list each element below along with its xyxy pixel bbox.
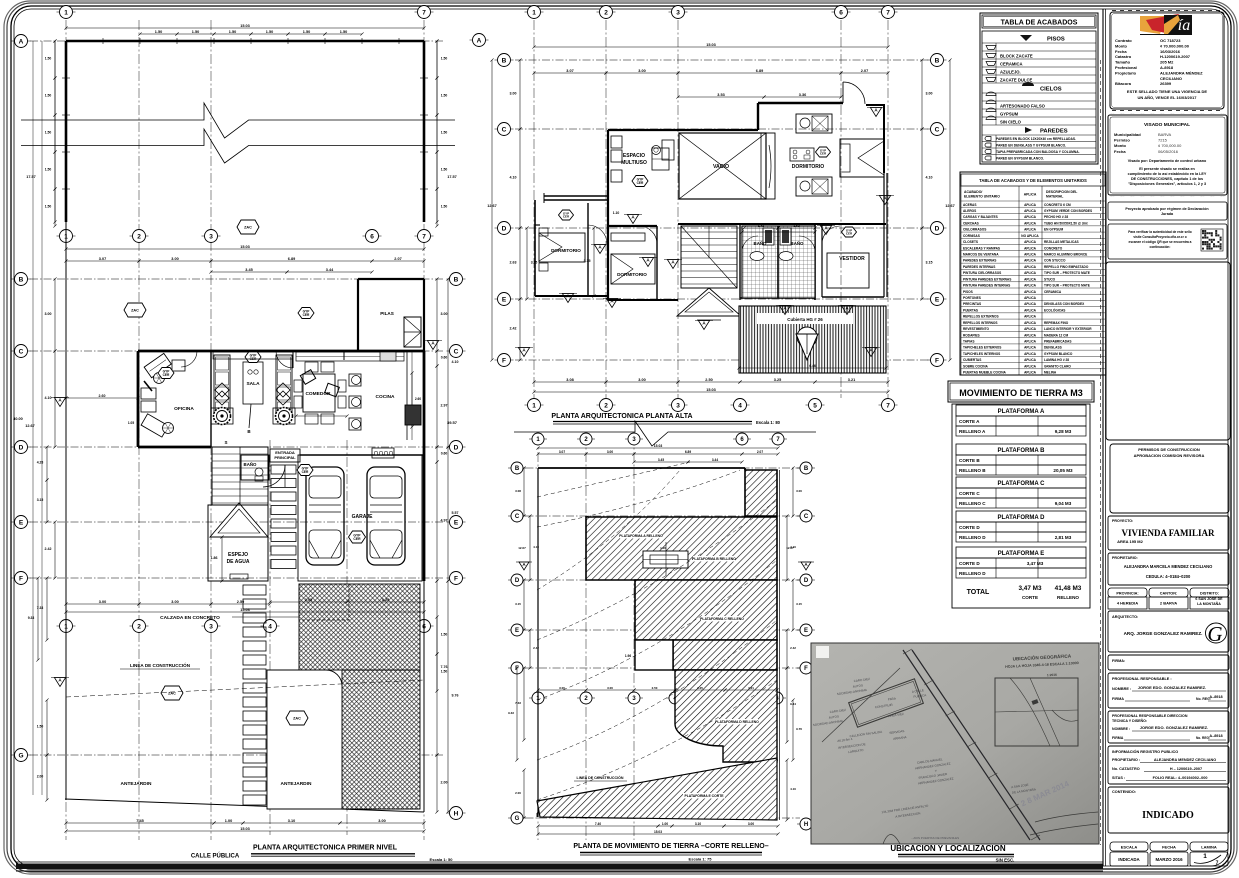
svg-text:DISTRITO:: DISTRITO: xyxy=(1200,591,1219,595)
svg-text:PERMISOS DE CONSTRUCCION: PERMISOS DE CONSTRUCCION xyxy=(1138,447,1200,452)
mt grid line xyxy=(512,515,800,517)
property boundary right lower xyxy=(423,581,425,812)
comedor table xyxy=(303,374,335,412)
svg-text:VACIO: VACIO xyxy=(713,164,729,170)
grid line A xyxy=(30,40,445,42)
pa dorm2 left wall xyxy=(607,203,609,300)
car xyxy=(306,467,344,565)
svg-text:DE AGUA: DE AGUA xyxy=(227,559,250,565)
svg-text:PECHO HG # 28: PECHO HG # 28 xyxy=(1044,215,1068,219)
lamina number xyxy=(1194,855,1221,863)
svg-text:PISOS: PISOS xyxy=(963,290,973,294)
svg-text:D: D xyxy=(502,225,507,232)
mt vertical grid xyxy=(633,435,635,840)
svg-text:STUCO: STUCO xyxy=(1044,277,1056,281)
pa left dormitorio walls xyxy=(535,224,540,226)
svg-text:PINTURA PAREDES EXTERNAS: PINTURA PAREDES EXTERNAS xyxy=(963,277,1011,281)
svg-text:Escala 1: 75: Escala 1: 75 xyxy=(689,857,713,862)
svg-text:1.00: 1.00 xyxy=(662,822,668,826)
svg-text:"Disposiciones Generales", art: "Disposiciones Generales", artículos 1, … xyxy=(1128,182,1206,186)
svg-text:SIN CIELO: SIN CIELO xyxy=(1000,119,1022,124)
svg-text:GYPSUM: GYPSUM xyxy=(1000,111,1019,116)
mt bubble 4 mid xyxy=(666,697,684,699)
svg-text:3.36: 3.36 xyxy=(799,93,806,97)
svg-text:PLANTA ARQUITECTONICA PRIMER: PLANTA ARQUITECTONICA PRIMER NIVEL xyxy=(253,845,398,852)
svg-text:APLICA: APLICA xyxy=(1024,302,1037,306)
svg-text:¢ 70.000.000.00: ¢ 70.000.000.00 xyxy=(1160,43,1190,48)
svg-text:3.15: 3.15 xyxy=(37,498,44,502)
svg-text:41,48 M3: 41,48 M3 xyxy=(1055,585,1082,592)
svg-text:H-1200619-2007: H-1200619-2007 xyxy=(1160,54,1191,59)
svg-text:PLATAFORMA E: PLATAFORMA E xyxy=(998,551,1045,557)
pa bubble 5 bottom xyxy=(806,404,825,406)
svg-text:E: E xyxy=(454,519,459,526)
svg-text:TABLA DE ACABADOS: TABLA DE ACABADOS xyxy=(1001,20,1078,27)
svg-text:SIN ESC.: SIN ESC. xyxy=(996,858,1015,863)
grid line E xyxy=(30,521,445,523)
svg-text:1.10: 1.10 xyxy=(613,211,620,215)
escala fecha lamina xyxy=(1110,842,1148,851)
pa top dims xyxy=(534,46,888,48)
svg-text:1.50: 1.50 xyxy=(155,30,162,34)
svg-text:1.50: 1.50 xyxy=(340,30,347,34)
mt grid line xyxy=(512,817,800,819)
svg-text:PROFESIONAL RESPONSABLE DIRE: PROFESIONAL RESPONSABLE DIRECCION xyxy=(1112,714,1188,718)
svg-text:PARED EN GYPSUM BLANCO.: PARED EN GYPSUM BLANCO. xyxy=(996,157,1044,161)
svg-text:E: E xyxy=(515,628,519,634)
svg-text:PUERTAS MUEBLE COCINA: PUERTAS MUEBLE COCINA xyxy=(963,371,1006,375)
grid bubble 2 mid row xyxy=(130,235,149,237)
svg-text:PROYECTO:: PROYECTO: xyxy=(1112,519,1133,523)
lawn rounded corner xyxy=(267,670,342,809)
svg-text:CORTE A: CORTE A xyxy=(959,419,980,424)
svg-text:CER: CER xyxy=(846,232,853,236)
svg-text:Monto: Monto xyxy=(1115,43,1128,48)
wall tick top xyxy=(324,38,326,44)
svg-text:2.07: 2.07 xyxy=(394,257,401,261)
pa espacio multiuso walls xyxy=(608,129,758,131)
baño xyxy=(241,455,269,480)
svg-text:APLICA: APLICA xyxy=(1024,271,1037,275)
oficina door arc xyxy=(181,351,197,367)
pa shelf band right of vacio xyxy=(766,133,775,199)
svg-text:1.05: 1.05 xyxy=(128,421,134,425)
svg-text:SITAS :: SITAS : xyxy=(1112,776,1125,780)
mt bottom dims xyxy=(538,825,658,827)
mt bubble 5 mid xyxy=(716,697,734,699)
cocina divider xyxy=(343,351,345,360)
vertical grid line xyxy=(887,20,889,398)
svg-text:MATERIAL: MATERIAL xyxy=(1046,195,1063,199)
svg-text:4.10: 4.10 xyxy=(926,176,933,180)
svg-text:1.50: 1.50 xyxy=(441,57,448,61)
svg-text:CONTENIDO:: CONTENIDO: xyxy=(1112,790,1136,794)
svg-text:Escala 1: 50: Escala 1: 50 xyxy=(430,857,454,862)
svg-text:3.25: 3.25 xyxy=(774,378,781,382)
svg-text:GYPSUM BLANCO: GYPSUM BLANCO xyxy=(1044,352,1073,356)
svg-text:PLATAFORMA B RELLENO: PLATAFORMA B RELLENO xyxy=(692,557,736,561)
vertical grid line short xyxy=(269,440,271,835)
svg-text:3.08: 3.08 xyxy=(566,378,573,382)
svg-text:······: ······ xyxy=(1130,197,1135,199)
svg-text:12.67: 12.67 xyxy=(945,204,955,208)
svg-text:BAÑO: BAÑO xyxy=(244,462,258,467)
svg-text:3.21: 3.21 xyxy=(748,686,754,690)
svg-text:PAREDES: PAREDES xyxy=(1040,129,1068,135)
svg-text:3.00: 3.00 xyxy=(638,378,645,382)
svg-text:F: F xyxy=(19,575,23,582)
section line with break xyxy=(21,103,455,138)
svg-text:E: E xyxy=(502,296,507,303)
svg-text:CER: CER xyxy=(302,470,309,474)
svg-text:DESCRIPCION DEL: DESCRIPCION DEL xyxy=(1046,190,1077,194)
arquitecto box xyxy=(1108,611,1229,652)
svg-text:1: 1 xyxy=(64,9,68,16)
svg-text:CORTE D: CORTE D xyxy=(959,561,980,566)
pa bubble E left xyxy=(495,298,514,300)
right dim chain patio xyxy=(436,41,438,222)
mt bubble B right xyxy=(797,467,815,469)
svg-text:7.33: 7.33 xyxy=(515,701,521,705)
svg-text:······: ······ xyxy=(1180,114,1185,116)
vertical grid line short xyxy=(346,440,348,835)
svg-text:······: ······ xyxy=(1200,114,1205,116)
svg-text:1: 1 xyxy=(532,402,536,409)
bottom thick border bar xyxy=(16,861,1103,863)
mt grid line xyxy=(512,629,800,631)
grid bubble 7 top xyxy=(415,11,434,13)
pa vestidor walls xyxy=(821,224,823,297)
svg-text:PLANTA ARQUITECTONICA PLANTA: PLANTA ARQUITECTONICA PLANTA ALTA xyxy=(551,413,692,420)
svg-text:TAPICHELES INTERNOS: TAPICHELES INTERNOS xyxy=(963,352,1000,356)
qr box xyxy=(1108,224,1227,259)
svg-text:2.63: 2.63 xyxy=(510,261,517,265)
svg-text:3.25: 3.25 xyxy=(382,598,389,602)
pa D wall xyxy=(608,225,657,227)
svg-text:1.86: 1.86 xyxy=(211,556,218,560)
svg-text:APLICA: APLICA xyxy=(1024,296,1037,300)
svg-text:1.50: 1.50 xyxy=(45,131,52,135)
svg-text:PROFESIONAL RESPONSABLE :: PROFESIONAL RESPONSABLE : xyxy=(1112,677,1172,681)
wall tick top xyxy=(176,38,178,44)
grid bubble C right xyxy=(447,350,466,352)
pa left outer wall xyxy=(534,200,536,296)
svg-text:6: 6 xyxy=(370,233,374,240)
wall tick right xyxy=(420,114,428,116)
svg-text:2.60: 2.60 xyxy=(99,394,106,398)
svg-text:No. CATASTRO: No. CATASTRO xyxy=(1112,767,1140,771)
svg-text:CER: CER xyxy=(303,313,310,317)
mt bubble E left xyxy=(508,629,526,631)
svg-text:ESCALA: ESCALA xyxy=(1121,844,1138,849)
mt bubble 3 mid xyxy=(625,697,643,699)
grid line G xyxy=(30,754,445,756)
svg-text:7: 7 xyxy=(422,9,426,16)
dims row above lower bubbles xyxy=(66,603,139,605)
svg-text:AZULEJO.: AZULEJO. xyxy=(1000,69,1021,74)
house left wall xyxy=(137,351,140,447)
svg-text:PINTURA PAREDES INTERNAS: PINTURA PAREDES INTERNAS xyxy=(963,284,1010,288)
pisos header xyxy=(1020,35,1032,41)
svg-text:F: F xyxy=(502,357,506,364)
pa bubble 1 bottom xyxy=(525,404,544,406)
vertical grid line xyxy=(210,20,212,840)
svg-text:Proyecto aprobado por régimen: Proyecto aprobado por régimen de Declara… xyxy=(1125,207,1209,211)
grid bubble 2 lower row xyxy=(130,625,149,627)
svg-text:7: 7 xyxy=(886,9,890,16)
svg-text:12.67: 12.67 xyxy=(518,546,526,550)
svg-text:ECOLÓGICAS: ECOLÓGICAS xyxy=(1044,307,1065,312)
svg-text:3.10: 3.10 xyxy=(288,819,295,823)
mt bubble G left xyxy=(508,817,526,819)
mt bubble H right xyxy=(797,823,815,825)
grid bubble B left xyxy=(12,278,31,280)
svg-text:CERCHAS: CERCHAS xyxy=(963,221,979,225)
cfia stamp box xyxy=(1110,12,1224,109)
svg-text:PUERTAS: PUERTAS xyxy=(963,308,978,312)
svg-text:15.03: 15.03 xyxy=(240,827,250,831)
svg-text:TAPIAS: TAPIAS xyxy=(963,340,974,344)
svg-text:C: C xyxy=(935,126,940,133)
grid bubble 3 mid row xyxy=(202,235,221,237)
propietario box xyxy=(1108,553,1229,585)
svg-text:2.07: 2.07 xyxy=(757,450,763,454)
svg-text:1.50: 1.50 xyxy=(45,168,52,172)
svg-text:BARVA: BARVA xyxy=(1158,132,1172,137)
sofa diamonds xyxy=(215,383,229,397)
svg-text:3.15: 3.15 xyxy=(531,261,538,265)
svg-text:EN GYPSUM: EN GYPSUM xyxy=(1044,228,1063,232)
master bed xyxy=(840,139,884,177)
svg-text:3: 3 xyxy=(676,402,680,409)
entrada principal xyxy=(270,449,300,462)
right side dims xyxy=(436,279,438,351)
svg-text:G: G xyxy=(515,816,520,822)
pa bubble 4 bottom xyxy=(731,404,750,406)
svg-text:C: C xyxy=(515,514,520,520)
svg-text:No. REG:: No. REG: xyxy=(1196,736,1210,740)
mt bubble C left xyxy=(508,515,526,517)
svg-text:1.00: 1.00 xyxy=(225,819,232,823)
svg-text:CER: CER xyxy=(637,181,644,185)
svg-text:APLICA: APLICA xyxy=(1024,333,1037,337)
svg-text:AREA 195 M2: AREA 195 M2 xyxy=(1117,539,1143,544)
svg-text:3.00: 3.00 xyxy=(441,312,448,316)
grid bubble D right xyxy=(447,446,466,448)
oficina/sala divider xyxy=(210,351,212,447)
svg-text:INDICADO: INDICADO xyxy=(1142,810,1194,821)
pa bubble F right xyxy=(928,359,947,361)
svg-text:GARAJE: GARAJE xyxy=(352,514,374,520)
cielos rows xyxy=(982,92,1096,94)
grid line xyxy=(515,128,928,130)
mt top dims xyxy=(538,447,778,449)
svg-text:······: ······ xyxy=(1190,197,1195,199)
cocina counter xyxy=(406,351,408,440)
svg-text:APLICA: APLICA xyxy=(1024,340,1037,344)
PLATAFORMA D sub-table xyxy=(956,511,1086,522)
level triangles pa xyxy=(518,348,529,357)
proyecto aprobado box xyxy=(1108,202,1227,220)
svg-text:2.00: 2.00 xyxy=(515,791,521,795)
svg-text:LINEA DE CONSTRUCCIÓN: LINEA DE CONSTRUCCIÓN xyxy=(577,775,624,780)
white court square xyxy=(635,640,673,670)
svg-text:FIRMA: FIRMA xyxy=(1112,736,1124,740)
grid line xyxy=(515,59,928,61)
mt vertical grid xyxy=(585,435,587,840)
dashed patch border xyxy=(299,584,349,620)
pa bubble 2 bottom xyxy=(597,404,616,406)
svg-text:APLICA: APLICA xyxy=(1024,259,1037,263)
svg-text:Visado por: Departamento de co: Visado por: Departamento de control urba… xyxy=(1128,159,1207,163)
wall tick left xyxy=(62,188,70,190)
entry door arc xyxy=(263,465,285,487)
property boundary bottom (slanted) xyxy=(65,799,424,812)
svg-text:4.10: 4.10 xyxy=(510,176,517,180)
svg-text:PLATAFORMA A: PLATAFORMA A xyxy=(998,409,1045,415)
grid bubble F left xyxy=(12,577,31,579)
svg-text:REPELLOS EXTERNOS: REPELLOS EXTERNOS xyxy=(963,315,999,319)
svg-text:D: D xyxy=(804,578,809,584)
svg-text:1.50: 1.50 xyxy=(45,57,52,61)
svg-text:TABLA DE ACABADOS Y DE ELEMENT: TABLA DE ACABADOS Y DE ELEMENTOS UNITARI… xyxy=(979,178,1087,183)
svg-text:APLICA: APLICA xyxy=(1024,290,1037,294)
mt bubble F left xyxy=(508,667,526,669)
svg-text:UBICACION Y LOCALIZACION: UBICACION Y LOCALIZACION xyxy=(890,844,1005,853)
svg-text:2.42: 2.42 xyxy=(510,327,517,331)
svg-text:Para verificar la autenticidad: Para verificar la autenticidad de este s… xyxy=(1128,230,1191,234)
svg-text:LAMINA: LAMINA xyxy=(1201,844,1217,849)
photo bottom blob xyxy=(883,835,900,845)
svg-text:APLICA: APLICA xyxy=(1024,352,1037,356)
PLATAFORMA C sub-table xyxy=(956,477,1086,488)
svg-text:FIRMA: FIRMA xyxy=(1112,697,1124,701)
driveway herringbone corner xyxy=(342,670,420,809)
svg-text:5.57: 5.57 xyxy=(452,511,459,515)
wall D oficina bottom xyxy=(138,446,211,449)
svg-text:3.08: 3.08 xyxy=(515,489,521,493)
svg-text:12.67: 12.67 xyxy=(487,204,497,208)
pa top-right bedroom walls xyxy=(758,102,843,104)
pa stairs xyxy=(681,226,737,288)
platform E wedge xyxy=(537,758,777,820)
svg-text:3.00: 3.00 xyxy=(171,600,178,604)
svg-text:26399: 26399 xyxy=(1160,81,1172,86)
svg-text:D: D xyxy=(454,444,459,451)
svg-text:MOVIMIENTO DE TIERRA M3: MOVIMIENTO DE TIERRA M3 xyxy=(959,388,1083,398)
svg-text:ARQUITECTO:: ARQUITECTO: xyxy=(1112,615,1138,619)
svg-text:3.07: 3.07 xyxy=(566,69,573,73)
svg-text:2: 2 xyxy=(137,233,141,240)
svg-text:D: D xyxy=(19,444,24,451)
svg-text:4.97: 4.97 xyxy=(441,519,448,523)
svg-text:205 M2: 205 M2 xyxy=(1160,60,1174,65)
svg-text:15.03: 15.03 xyxy=(240,24,250,28)
svg-text:Monto: Monto xyxy=(1114,143,1127,148)
mt bubble 2 mid xyxy=(577,697,595,699)
proyecto box xyxy=(1108,516,1229,550)
svg-text:9.76: 9.76 xyxy=(796,727,802,731)
svg-text:ACABADO/: ACABADO/ xyxy=(964,190,982,194)
svg-text:6.89: 6.89 xyxy=(756,69,763,73)
svg-text:CON STUCCO: CON STUCCO xyxy=(1044,259,1066,263)
svg-text:1.50: 1.50 xyxy=(441,131,448,135)
grid bubble B right xyxy=(447,278,466,280)
svg-text:2.00: 2.00 xyxy=(441,781,448,785)
svg-text:3.00: 3.00 xyxy=(796,489,802,493)
svg-text:REJILLAS METALICAS: REJILLAS METALICAS xyxy=(1044,240,1079,244)
svg-text:APLICA: APLICA xyxy=(1024,265,1037,269)
right boundary double line xyxy=(779,470,781,820)
svg-text:CANTON:: CANTON: xyxy=(1160,591,1177,595)
PLATAFORMA B sub-table xyxy=(956,444,1086,455)
grid bubble A left xyxy=(12,40,31,42)
photo road xyxy=(903,650,1030,840)
svg-text:······: ······ xyxy=(1110,197,1115,199)
dim 2.60 cocina right xyxy=(411,373,413,427)
svg-text:A: A xyxy=(19,38,24,45)
svg-text:4.10: 4.10 xyxy=(790,787,796,791)
escala note xyxy=(251,853,415,855)
profesional direccion box xyxy=(1108,711,1229,743)
driveway herringbone upper xyxy=(299,584,420,670)
svg-text:12.67: 12.67 xyxy=(786,546,794,550)
svg-text:9.76: 9.76 xyxy=(452,694,459,698)
vertical grid line xyxy=(605,20,607,398)
svg-text:3.00: 3.00 xyxy=(748,822,754,826)
table title xyxy=(982,15,1096,28)
svg-text:RELLENO C: RELLENO C xyxy=(959,501,986,506)
svg-text:...AVIS PUERTAS DE PREVANILES: ...AVIS PUERTAS DE PREVANILES xyxy=(911,836,959,840)
paredes header xyxy=(1025,127,1032,133)
svg-text:6.89: 6.89 xyxy=(685,450,691,454)
svg-text:ESCALERAS Y RAMPAS: ESCALERAS Y RAMPAS xyxy=(963,246,1000,250)
svg-text:APLICA: APLICA xyxy=(1024,203,1037,207)
cfia logo xyxy=(1140,16,1166,34)
svg-text:CEDULA: 4–0184–0200: CEDULA: 4–0184–0200 xyxy=(1146,574,1191,579)
svg-text:RODAPIES: RODAPIES xyxy=(963,333,980,337)
mt grid line xyxy=(512,667,800,669)
svg-text:D: D xyxy=(935,225,940,232)
svg-text:9,04 M3: 9,04 M3 xyxy=(1055,501,1072,506)
svg-text:1.50: 1.50 xyxy=(229,30,236,34)
svg-text:LAMINA HG # 28: LAMINA HG # 28 xyxy=(1044,358,1069,362)
grid bubble G left xyxy=(12,754,31,756)
qr code xyxy=(1201,229,1223,251)
pa bubble 7 bottom xyxy=(879,404,898,406)
grid bubble 1 lower row xyxy=(57,625,76,627)
svg-text:3.00: 3.00 xyxy=(607,686,613,690)
svg-text:F: F xyxy=(454,575,458,582)
svg-text:COCINA: COCINA xyxy=(376,394,395,400)
pa right outer wall xyxy=(883,105,885,173)
svg-text:APLICA: APLICA xyxy=(1024,221,1037,225)
pisos rows xyxy=(982,42,1096,44)
svg-text:7.40: 7.40 xyxy=(595,822,601,826)
svg-text:Fecha: Fecha xyxy=(1115,49,1127,54)
pa bubble C right xyxy=(928,128,947,130)
svg-text:LINEA DE CONSTRUCCIÓN: LINEA DE CONSTRUCCIÓN xyxy=(130,661,191,668)
svg-text:3.44: 3.44 xyxy=(712,458,718,462)
vertical grid line xyxy=(677,20,679,398)
svg-text:······: ······ xyxy=(1120,197,1125,199)
baños tiled xyxy=(742,226,815,298)
svg-text:C: C xyxy=(454,348,459,355)
svg-text:CORTE B: CORTE B xyxy=(959,458,980,463)
svg-text:PLATAFORMA D: PLATAFORMA D xyxy=(998,515,1046,521)
svg-text:ESTE SELLADO TIENE UNA VIGENCI: ESTE SELLADO TIENE UNA VIGENCIA DE xyxy=(1127,89,1207,94)
svg-text:17.57: 17.57 xyxy=(26,175,36,179)
